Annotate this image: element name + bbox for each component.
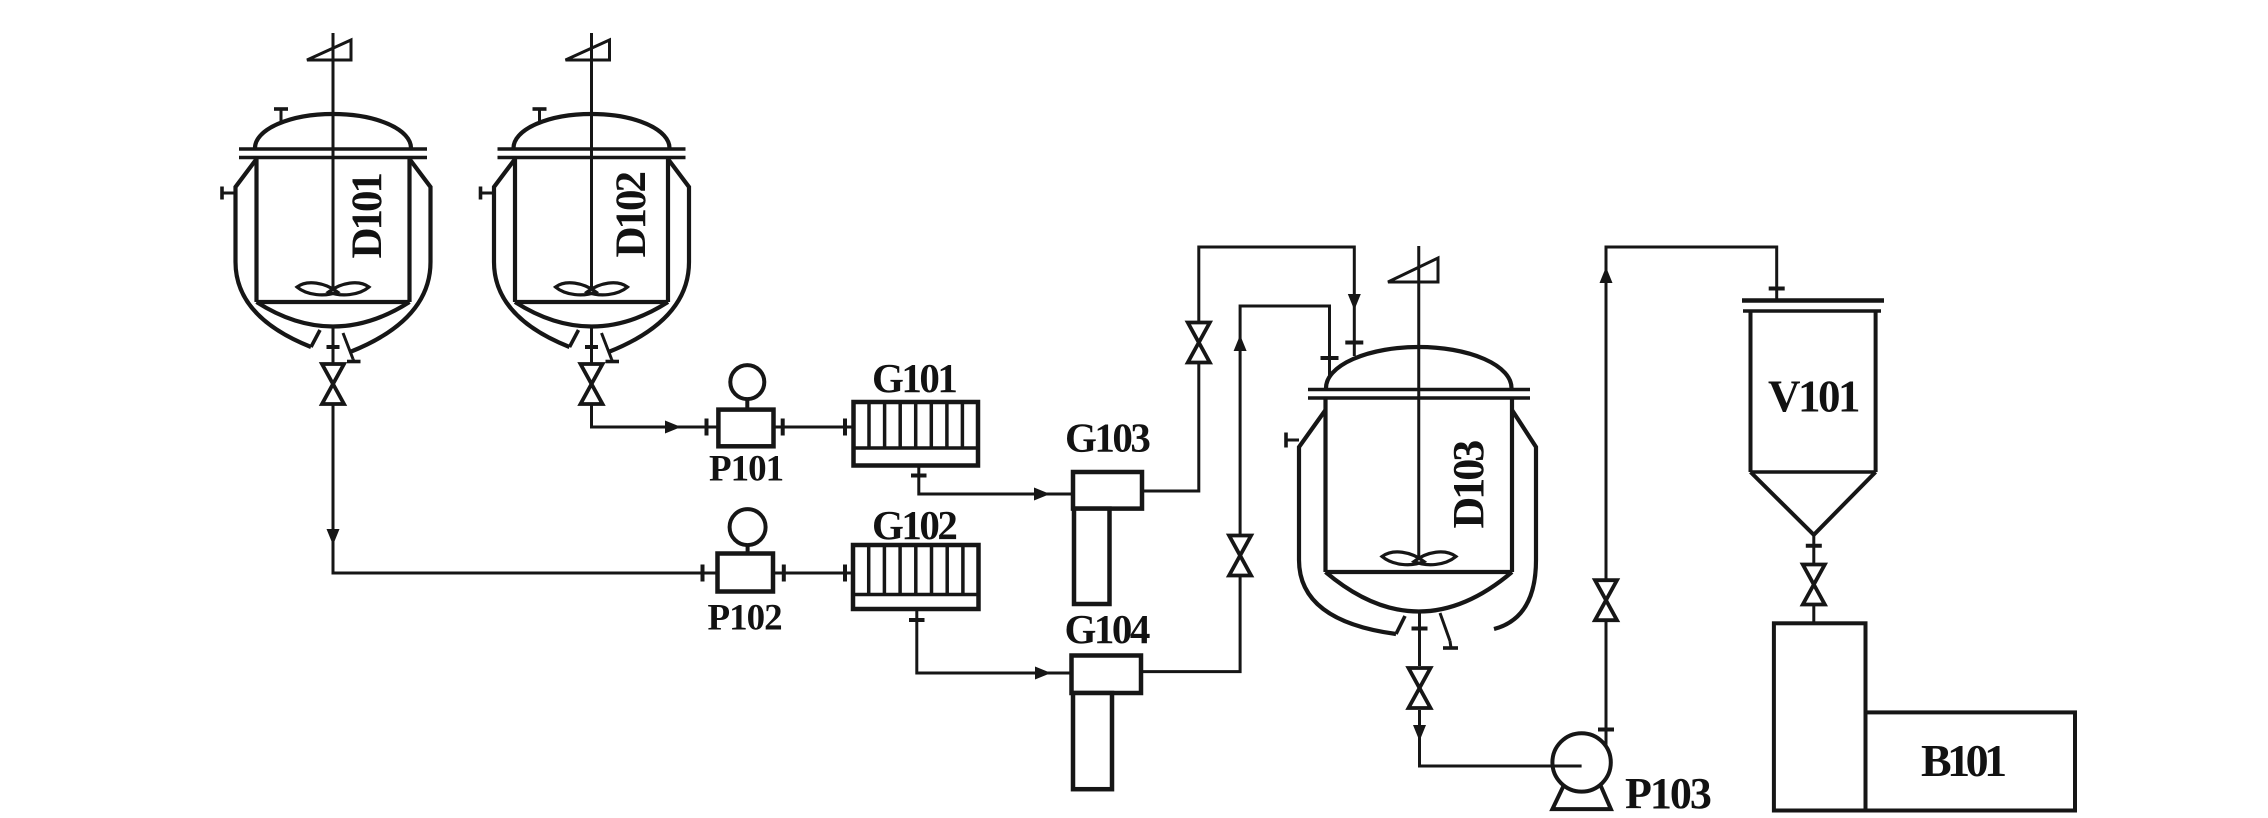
- pump P102 body: [718, 554, 774, 592]
- flange tick after P102: [782, 565, 786, 582]
- svg-text:G103: G103: [1065, 415, 1150, 461]
- reactor D102: [481, 33, 690, 364]
- reactor D101: [222, 33, 431, 364]
- pump P101 stem: [745, 399, 749, 410]
- flange tick G101 outlet: [911, 474, 927, 478]
- wire G101 outlet to G103: [919, 466, 1073, 495]
- exchanger G102 shell: [853, 545, 979, 609]
- svg-text:G102: G102: [872, 502, 956, 548]
- exchanger G102 tube sheet line: [853, 593, 979, 597]
- valve on G104 riser: [1229, 536, 1251, 576]
- flange tick on V101 inlet: [1769, 287, 1785, 291]
- svg-text:V101: V101: [1768, 372, 1859, 422]
- flange tick before P101: [705, 419, 709, 436]
- column G103 head: [1073, 472, 1142, 509]
- pump P103 casing circle: [1552, 733, 1610, 791]
- valve on P103 riser: [1595, 580, 1617, 620]
- pump P103 base: [1552, 786, 1611, 810]
- svg-text:D103: D103: [1444, 441, 1493, 529]
- wire V101 cone outlet to valve and bin: [1812, 535, 1815, 624]
- valve under D101: [322, 364, 344, 404]
- arrow into G104: [1035, 667, 1051, 680]
- column G104 head: [1072, 656, 1142, 694]
- box B101: [1866, 712, 2076, 810]
- arrow on D102-P101 line: [665, 421, 681, 434]
- exchanger G102 tubes hatching: [869, 545, 963, 595]
- exchanger G101 tubes hatching: [869, 402, 962, 448]
- pump P102 stem: [746, 545, 750, 553]
- valve under V101: [1803, 565, 1825, 605]
- vessel V101 lid: [1742, 298, 1884, 303]
- arrow up on P103 riser: [1600, 267, 1613, 283]
- wire G104 outlet riser to D103 top: [1141, 306, 1330, 672]
- exchanger G101 tube sheet line: [854, 446, 979, 450]
- svg-text:G104: G104: [1065, 606, 1150, 652]
- wire D101 outlet down and to P102: [333, 403, 718, 573]
- svg-text:P103: P103: [1625, 769, 1711, 818]
- flange tick on P103 discharge: [1598, 728, 1614, 732]
- svg-text:D102: D102: [608, 172, 655, 257]
- wire P103 discharge riser to V101: [1606, 247, 1777, 760]
- pump P101 head circle: [730, 365, 764, 399]
- wire G102 outlet to G104: [917, 609, 1072, 673]
- column G104 leg: [1073, 693, 1112, 789]
- column G103 leg: [1074, 509, 1110, 604]
- flange tick after P101: [781, 419, 785, 436]
- arrow down on D103 outlet: [1413, 725, 1426, 741]
- wire P101 to G101: [774, 426, 854, 429]
- svg-text:D101: D101: [344, 173, 391, 258]
- reactor D103: [1286, 246, 1536, 666]
- wire G103 outlet riser to D103 top: [1142, 247, 1354, 491]
- arrow up on G104 riser: [1234, 335, 1247, 351]
- wire D103 outlet to P103 suction: [1420, 710, 1582, 766]
- pump P101 body: [718, 410, 773, 447]
- flange tick before G102: [843, 565, 847, 582]
- flange tick on D103 first feed: [1345, 341, 1363, 345]
- valve under D102: [581, 364, 603, 404]
- svg-text:B101: B101: [1921, 735, 2005, 786]
- wire D102 outlet to P101: [592, 403, 719, 427]
- bin under V101: [1774, 623, 1866, 810]
- wire P102 to G102: [773, 572, 853, 575]
- valve on G103 riser: [1188, 323, 1210, 363]
- vessel V101 body: [1751, 311, 1876, 535]
- svg-text:G101: G101: [872, 355, 956, 401]
- arrow down on D101 line: [327, 529, 340, 545]
- pump P102 head circle: [730, 509, 766, 545]
- exchanger G101 shell: [854, 402, 979, 466]
- flange tick under V101 cone: [1806, 544, 1822, 548]
- flange tick before P102: [701, 565, 705, 582]
- flange tick on D103 second feed: [1321, 356, 1339, 360]
- flange tick G102 outlet: [909, 618, 925, 622]
- arrow into G103: [1034, 488, 1050, 501]
- flange tick before G101: [843, 419, 847, 436]
- svg-text:P101: P101: [709, 449, 783, 490]
- arrow down into D103 first feed: [1348, 294, 1361, 310]
- svg-text:P102: P102: [708, 598, 782, 639]
- valve under D103: [1409, 668, 1431, 708]
